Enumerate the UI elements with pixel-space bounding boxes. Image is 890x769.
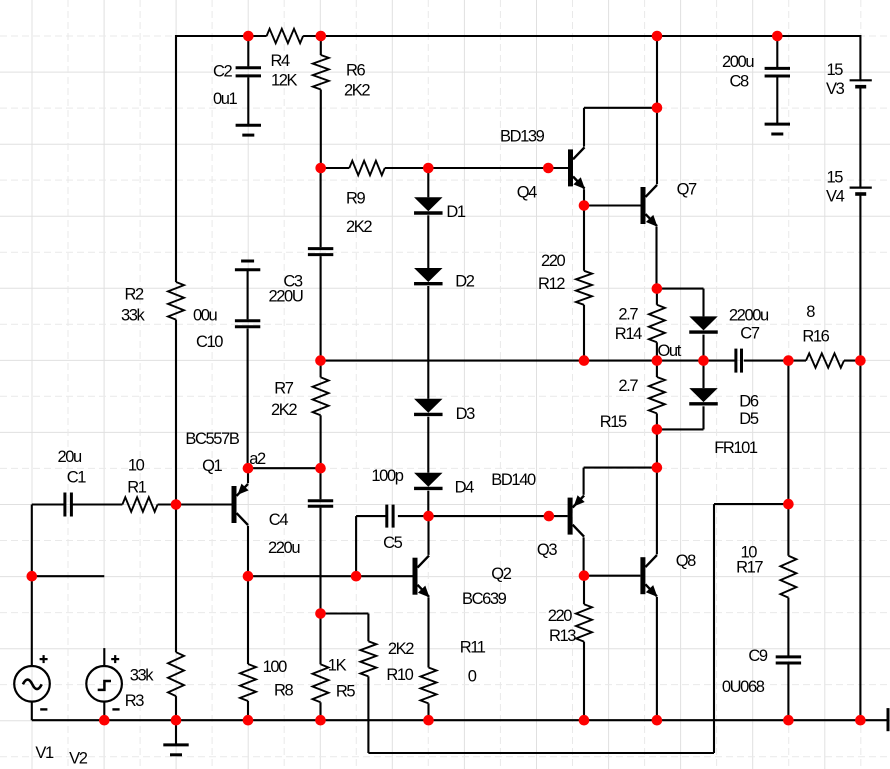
- wire Q3 emitter up: [584, 468, 657, 495]
- label D1: [446, 203, 466, 221]
- svg-text:Out: Out: [658, 342, 682, 360]
- V1 minus sign: [40, 708, 47, 710]
- svg-text:0u1: 0u1: [213, 90, 238, 108]
- label C2 value: [213, 90, 238, 108]
- resistor R5: [313, 614, 329, 721]
- svg-text:R3: R3: [125, 692, 145, 710]
- wire left vertical rail x=176: [175, 35, 177, 720]
- junction R9 rail / C3: [315, 163, 326, 174]
- svg-text:R12: R12: [538, 275, 565, 293]
- junction a2 left: [243, 463, 254, 474]
- svg-text:15: 15: [827, 169, 844, 187]
- junction bottom rail / right rail: [855, 715, 866, 726]
- label R6 value: [344, 82, 370, 100]
- wire R1 to Q1 base: [158, 503, 232, 505]
- wire R10 branch: [321, 614, 369, 642]
- label R5: [336, 683, 356, 701]
- resistor R13: [576, 576, 592, 721]
- diode D5: [689, 388, 718, 404]
- wire base rail y=576.2: [248, 575, 413, 577]
- svg-text:0U068: 0U068: [722, 678, 765, 696]
- wire C2 to ground: [247, 77, 249, 125]
- resistor R10: [360, 641, 376, 676]
- label R5 value: [328, 657, 347, 675]
- wire D6 to mid rail: [702, 335, 704, 361]
- junction Q4 base pin: [543, 163, 554, 174]
- label D6: [739, 392, 759, 410]
- label R17: [736, 558, 763, 576]
- junction bottom rail / V2: [99, 715, 110, 726]
- label R15 value: [618, 377, 638, 395]
- label V2: [69, 750, 88, 768]
- label a2 net: [249, 450, 266, 468]
- svg-text:2K2: 2K2: [388, 640, 414, 658]
- transistor Q8: [640, 555, 657, 597]
- source V2 (pulse): [86, 666, 122, 702]
- svg-text:C1: C1: [67, 469, 87, 487]
- junction feedback / R17 top: [783, 499, 794, 510]
- label C2: [213, 63, 233, 81]
- label R9: [346, 189, 366, 207]
- resistor R2: [168, 282, 184, 320]
- wire D6 branch: [657, 289, 704, 317]
- svg-text:2200u: 2200u: [729, 307, 769, 325]
- svg-text:C2: C2: [213, 63, 233, 81]
- V2 plus sign: [111, 655, 119, 663]
- label Out net: [658, 342, 682, 360]
- wire Q8 base: [584, 575, 640, 577]
- wire Q1 collector: [247, 526, 249, 576]
- label R4 value: [271, 72, 298, 90]
- svg-text:R15: R15: [600, 413, 627, 431]
- transistor Q7: [641, 185, 658, 227]
- label R12: [538, 275, 565, 293]
- svg-text:R13: R13: [549, 627, 576, 645]
- ground below C8: [765, 124, 790, 134]
- label R14 value: [618, 305, 638, 323]
- junction mid rail / R12: [579, 355, 590, 366]
- label C5: [383, 534, 403, 552]
- terminal bar bottom right: [887, 708, 890, 731]
- wire V2 leads: [103, 648, 105, 720]
- svg-text:R10: R10: [386, 666, 413, 684]
- resistor R12: [576, 206, 592, 361]
- svg-text:Q8: Q8: [676, 552, 696, 570]
- resistor R11: [421, 668, 437, 721]
- svg-text:33k: 33k: [130, 667, 155, 685]
- label C1 value: [58, 448, 83, 466]
- ground below C2: [236, 125, 261, 135]
- svg-text:1K: 1K: [328, 657, 347, 675]
- resistor R14: [649, 289, 665, 361]
- junction C5 branch / base rail: [351, 571, 362, 582]
- capacitor C4: [308, 468, 333, 613]
- svg-text:a2: a2: [249, 450, 266, 468]
- resistor R6: [313, 36, 329, 168]
- svg-text:C5: C5: [383, 534, 403, 552]
- wire Q7 emitter to node: [655, 227, 657, 289]
- label R1 value: [128, 457, 145, 475]
- wire Q1 emitter to a2: [247, 468, 249, 483]
- svg-text:2.7: 2.7: [618, 377, 638, 395]
- label C9 value: [722, 678, 765, 696]
- wire Q2 emitter: [427, 598, 429, 668]
- transistor Q4 (BD139): [568, 147, 585, 189]
- svg-text:C10: C10: [196, 333, 223, 351]
- junction top rail / C2: [243, 31, 254, 42]
- svg-text:R5: R5: [336, 683, 356, 701]
- label C9: [748, 647, 768, 665]
- junction Q3 base pin: [544, 511, 555, 522]
- capacitor C9: [776, 657, 801, 663]
- transistor Q3 (BD140): [568, 495, 585, 537]
- label R17 value: [741, 544, 758, 562]
- svg-text:BD140: BD140: [491, 471, 536, 489]
- wire Q3 collector down: [583, 537, 585, 575]
- svg-text:2K2: 2K2: [271, 401, 297, 419]
- label C3: [283, 272, 303, 290]
- label R1: [127, 479, 147, 497]
- svg-text:8: 8: [806, 303, 815, 321]
- svg-text:R14: R14: [615, 325, 642, 343]
- svg-text:BD139: BD139: [500, 128, 545, 146]
- label D2: [455, 272, 475, 290]
- label C3 value: [269, 288, 303, 306]
- svg-text:Q7: Q7: [677, 181, 697, 199]
- label C8: [730, 72, 750, 90]
- wire R9 rail y=168: [321, 167, 568, 169]
- junction bottom rail / Q8 emitter: [652, 715, 663, 726]
- wire Q4 emitter to node: [583, 189, 585, 205]
- label R8: [274, 682, 294, 700]
- svg-text:15: 15: [827, 61, 844, 79]
- junction R1 / R2 / Q1 base: [171, 499, 182, 510]
- svg-text:R1: R1: [127, 479, 147, 497]
- svg-text:D2: D2: [455, 272, 475, 290]
- resistor R7: [313, 361, 329, 469]
- svg-text:Q3: Q3: [537, 541, 557, 559]
- label Q4: [517, 184, 537, 202]
- label Q2: [491, 565, 511, 583]
- svg-text:R6: R6: [346, 62, 366, 80]
- wire C10 leads: [247, 270, 249, 469]
- svg-text:R2: R2: [125, 286, 145, 304]
- junction top rail / C8: [772, 31, 783, 42]
- diode D2: [414, 268, 443, 284]
- svg-text:10: 10: [128, 457, 145, 475]
- battery V3: [850, 80, 872, 86]
- junction mid rail / R17 branch: [783, 355, 794, 366]
- resistor R3: [168, 652, 184, 696]
- label V4: [826, 188, 845, 206]
- label R3: [125, 692, 145, 710]
- label C1: [67, 469, 87, 487]
- resistor R4: [267, 29, 304, 43]
- junction top rail / x657: [652, 31, 663, 42]
- label V3: [826, 80, 845, 98]
- label Q1: [202, 457, 222, 475]
- label Q2 type: [462, 590, 507, 608]
- resistor R15: [649, 361, 665, 430]
- wire Q3 base rail y=516.1: [398, 515, 568, 517]
- V2 minus sign: [112, 708, 119, 710]
- label C7 value: [729, 307, 769, 325]
- junction Q1 collector / R8 / base rail: [243, 571, 254, 582]
- label Q8: [676, 552, 696, 570]
- svg-text:C7: C7: [740, 325, 760, 343]
- label R13 value: [548, 607, 573, 625]
- junction R9 rail / D1: [423, 163, 434, 174]
- label D5 value: [714, 439, 758, 457]
- wire Q4 collector: [584, 108, 657, 147]
- junction R15 / D5 wire: [652, 424, 663, 435]
- label R2 value: [121, 307, 146, 325]
- junction bottom rail / C9: [783, 715, 794, 726]
- svg-text:00u: 00u: [193, 307, 218, 325]
- resistor R9: [349, 161, 385, 175]
- wire Q8 emitter: [656, 597, 658, 720]
- junction Q3 collector / R13 / Q8 base: [579, 570, 590, 581]
- label R10 value: [388, 640, 414, 658]
- svg-text:12K: 12K: [271, 72, 298, 90]
- label R14: [615, 325, 642, 343]
- junction mid rail / right rail: [855, 355, 866, 366]
- svg-text:C8: C8: [730, 72, 750, 90]
- svg-text:C4: C4: [269, 511, 289, 529]
- V1 plus sign: [40, 655, 48, 663]
- junction top rail / R6: [316, 31, 327, 42]
- label Q4 type: [500, 128, 545, 146]
- label R16 value: [806, 303, 815, 321]
- junction a2 right: [315, 463, 326, 474]
- label D3: [456, 405, 476, 423]
- label R6: [346, 62, 366, 80]
- label D4: [455, 478, 475, 496]
- wire C1 to R1: [72, 503, 123, 505]
- svg-text:2K2: 2K2: [346, 218, 372, 236]
- junction Q3 emitter / Q8 collector: [652, 462, 663, 473]
- svg-text:D3: D3: [456, 405, 476, 423]
- svg-text:Q4: Q4: [517, 184, 537, 202]
- svg-text:20u: 20u: [58, 448, 83, 466]
- junction bottom rail / R8: [243, 715, 254, 726]
- wire input left stub: [32, 505, 105, 577]
- junction mid rail / R7: [315, 355, 326, 366]
- svg-text:200u: 200u: [722, 53, 754, 71]
- capacitor C7: [736, 349, 742, 373]
- label R9 value: [346, 218, 372, 236]
- label C4: [269, 511, 289, 529]
- wire x=657 to Q8/Q3 node: [656, 429, 658, 467]
- label C5 value: [371, 467, 403, 485]
- label V4 value: [827, 169, 844, 187]
- junction C4 / R5 / R10 branch: [315, 608, 326, 619]
- label Q1 type: [185, 430, 239, 448]
- junction bottom rail / ground: [171, 715, 182, 726]
- capacitor C5: [387, 505, 393, 528]
- label C10: [196, 333, 223, 351]
- label Q3: [537, 541, 557, 559]
- svg-text:R11: R11: [460, 639, 486, 657]
- svg-text:R8: R8: [274, 682, 294, 700]
- wire Q8 collector: [656, 468, 658, 555]
- junction bottom rail / R13: [579, 715, 590, 726]
- svg-text:220U: 220U: [269, 288, 303, 306]
- svg-text:C9: C9: [748, 647, 768, 665]
- svg-text:V3: V3: [826, 80, 845, 98]
- svg-text:D5: D5: [739, 410, 759, 428]
- label Q3 type: [491, 471, 536, 489]
- svg-text:V1: V1: [35, 744, 54, 762]
- capacitor C3: [308, 168, 333, 361]
- svg-text:220: 220: [541, 252, 566, 270]
- svg-text:0: 0: [468, 668, 477, 686]
- label C10 value: [193, 307, 218, 325]
- svg-text:D4: D4: [455, 478, 475, 496]
- diode D3: [414, 399, 443, 415]
- wire D5 to node: [657, 406, 704, 429]
- label R11 value: [468, 668, 477, 686]
- svg-text:R4: R4: [271, 52, 291, 70]
- label R7: [274, 379, 294, 397]
- resistor R17: [780, 556, 796, 598]
- junction bottom rail / R5: [315, 715, 326, 726]
- wire node a2: [248, 467, 321, 469]
- label Q7: [677, 181, 697, 199]
- svg-text:V4: V4: [826, 188, 845, 206]
- label R8 value: [263, 658, 288, 676]
- wire D5 branch: [702, 361, 704, 389]
- label R11: [460, 639, 486, 657]
- junction Q4 collector node: [652, 103, 663, 114]
- diode D1: [414, 197, 443, 213]
- svg-text:D6: D6: [739, 392, 759, 410]
- junction D4 / Q2 collector: [423, 511, 434, 522]
- label R2: [125, 286, 145, 304]
- label R12 value: [541, 252, 566, 270]
- svg-text:220: 220: [548, 607, 573, 625]
- label R16: [802, 327, 829, 345]
- svg-text:R16: R16: [802, 327, 829, 345]
- wire C9 to bottom rail: [787, 664, 789, 720]
- resistor R8: [240, 576, 256, 720]
- junction V1 top / C1: [27, 571, 38, 582]
- wire R17 to C9: [787, 598, 789, 656]
- wire right vertical rail x=860.4: [859, 35, 861, 720]
- ground at bottom rail: [163, 720, 188, 755]
- diode D4: [414, 473, 443, 489]
- wire mid rail (Out) y=360.6: [321, 360, 861, 362]
- capacitor C10 plates: [235, 321, 260, 327]
- junction Q7 emitter / R14 / D6: [652, 283, 663, 294]
- wire x=657 top vertical: [656, 36, 658, 184]
- label C7: [740, 325, 760, 343]
- capacitor C1: [32, 493, 72, 517]
- junction mid rail / D5: [698, 355, 709, 366]
- svg-text:R7: R7: [274, 379, 294, 397]
- svg-text:100p: 100p: [371, 467, 403, 485]
- svg-text:220u: 220u: [268, 539, 300, 557]
- svg-text:V2: V2: [69, 750, 88, 768]
- svg-text:BC639: BC639: [462, 590, 507, 608]
- capacitor C8: [765, 36, 790, 76]
- svg-text:D1: D1: [446, 203, 466, 221]
- wire V1 leads: [31, 576, 33, 720]
- wire Out to R17: [787, 361, 789, 556]
- label C4 value: [268, 539, 300, 557]
- battery V4: [850, 188, 872, 194]
- wire Q7 base: [584, 204, 641, 206]
- capacitor C2: [236, 36, 261, 76]
- label R7 value: [271, 401, 297, 419]
- svg-text:BC557B: BC557B: [185, 430, 239, 448]
- junction mid rail Out node: [652, 355, 663, 366]
- wire top rail: [175, 35, 860, 37]
- label R13: [549, 627, 576, 645]
- label R15: [600, 413, 627, 431]
- transistor Q1 (BC557B): [232, 484, 249, 525]
- label C8 value: [722, 53, 754, 71]
- label R10: [386, 666, 413, 684]
- resistor R1: [122, 497, 157, 511]
- svg-text:100: 100: [263, 658, 288, 676]
- source V1 (sine): [14, 666, 50, 702]
- wire C8 to ground: [776, 78, 778, 125]
- wire R10 to feedback: [368, 504, 788, 753]
- svg-text:R17: R17: [736, 558, 763, 576]
- svg-text:2K2: 2K2: [344, 82, 370, 100]
- svg-text:Q1: Q1: [202, 457, 222, 475]
- inverted ground above C10: [235, 261, 260, 270]
- svg-text:33k: 33k: [121, 307, 146, 325]
- svg-text:FR101: FR101: [714, 439, 758, 457]
- wire Q2 collector: [427, 516, 429, 555]
- wire C5 left branch: [356, 516, 387, 576]
- label V1: [35, 744, 54, 762]
- label D5: [739, 410, 759, 428]
- label R3 value: [130, 667, 155, 685]
- junction Q7 base / R12: [579, 200, 590, 211]
- svg-text:R9: R9: [346, 189, 366, 207]
- wire bottom rail y=720.2: [32, 719, 888, 721]
- diode chain wire: [427, 168, 429, 516]
- label V3 value: [827, 61, 844, 79]
- label R4: [271, 52, 291, 70]
- svg-text:Q2: Q2: [491, 565, 511, 583]
- transistor Q2 (BC639): [413, 556, 430, 598]
- resistor R16: [806, 353, 844, 367]
- svg-text:2.7: 2.7: [618, 305, 638, 323]
- diode D6: [689, 316, 718, 332]
- junction bottom rail / R11: [423, 715, 434, 726]
